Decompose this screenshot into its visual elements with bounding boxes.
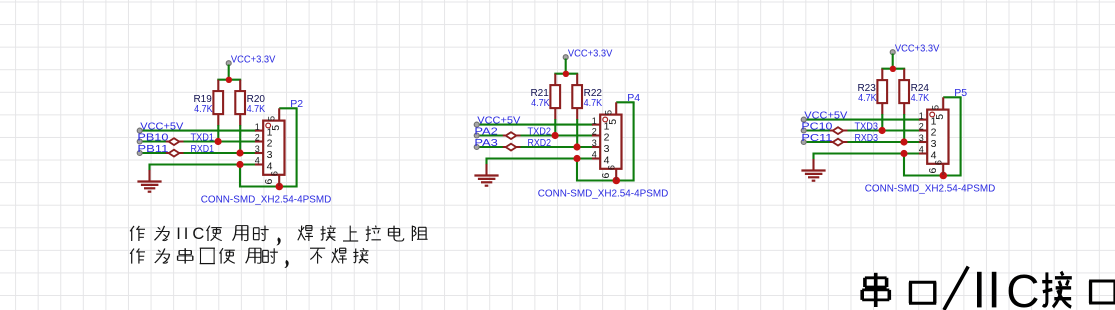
svg-text:I: I bbox=[184, 225, 189, 243]
wire VCC+3.3V vertical bbox=[228, 65, 230, 80]
connector P4 CONN-SMD_XH2.54-4PSMD bbox=[592, 103, 622, 181]
marker diamond on RXD1 wire bbox=[166, 150, 184, 157]
marker diamond on RXD2 wire bbox=[503, 144, 521, 151]
resistor R19 4.7K pull-up bbox=[193, 80, 223, 126]
resistor R24 4.7K pull-up bbox=[899, 68, 929, 114]
port VCC+5V bbox=[801, 109, 847, 122]
wire R23 to net TXD3 bbox=[881, 114, 883, 131]
circuit 1: UART1/IIC2 connector P2 bbox=[128, 44, 343, 209]
wire shield top bbox=[616, 102, 634, 104]
port PC10 bbox=[801, 120, 832, 133]
connector P2 CONN-SMD_XH2.54-4PSMD bbox=[255, 108, 285, 186]
svg-text:C: C bbox=[192, 225, 204, 243]
wire TXD2 to pin 2 bbox=[476, 135, 592, 137]
wire R20 to net RXD1 bbox=[239, 125, 241, 153]
wire VCC+5V to pin 1 bbox=[804, 118, 920, 120]
circuit 3: UART3/IIC connector P5 bbox=[792, 33, 1007, 198]
wire resistor top rail bbox=[881, 67, 905, 69]
svg-text:I: I bbox=[176, 225, 181, 243]
wire GND to pin 4 bbox=[814, 152, 921, 154]
svg-text:C: C bbox=[1006, 265, 1039, 310]
port PA2 bbox=[474, 126, 498, 139]
wire shield right side bbox=[296, 108, 298, 187]
junction RXD3 / R24 bbox=[900, 138, 907, 145]
wire resistor top rail bbox=[217, 79, 241, 81]
power VCC+3.3V port P5 circuit bbox=[890, 42, 939, 54]
wire R24 to net RXD3 bbox=[903, 114, 905, 142]
ground symbol bbox=[137, 164, 161, 192]
junction TXD2 / R21 bbox=[551, 132, 558, 139]
junction RXD1 / R20 bbox=[236, 149, 243, 156]
junction pin6 / shield bbox=[612, 177, 620, 185]
wire shield right side bbox=[632, 103, 634, 182]
wire pin4 net down to shield bbox=[903, 153, 905, 176]
port PA3 bbox=[474, 137, 498, 150]
marker diamond on TXD1 wire bbox=[166, 138, 184, 145]
wire GND to pin 4 bbox=[150, 163, 257, 165]
wire VCC+3.3V vertical bbox=[564, 59, 566, 74]
port VCC+5V bbox=[474, 115, 520, 128]
wire VCC+5V to pin 1 bbox=[140, 130, 256, 132]
wire R19 to net TXD1 bbox=[217, 125, 219, 142]
wire shield bottom bbox=[903, 174, 961, 176]
wire pin4 net down to shield bbox=[576, 159, 578, 182]
wire RXD3 to pin 3 bbox=[804, 140, 920, 142]
junction TXD1 / R19 bbox=[215, 138, 222, 145]
port VCC+5V bbox=[137, 120, 183, 133]
junction pin6 / shield bbox=[940, 171, 948, 179]
wire GND to pin 4 bbox=[486, 158, 593, 160]
wire RXD2 to pin 3 bbox=[476, 146, 592, 148]
wire pin4 net down to shield bbox=[239, 165, 241, 188]
junction VCC rail bbox=[890, 65, 896, 71]
power VCC+3.3V port P2 circuit bbox=[226, 54, 275, 66]
text note: 作为串口使用时，不焊接 bbox=[130, 249, 145, 264]
wire shield bottom bbox=[576, 180, 634, 182]
junction TXD3 / R23 bbox=[879, 126, 886, 133]
junction pin4 / shield bbox=[236, 161, 243, 168]
resistor R21 4.7K pull-up bbox=[530, 74, 560, 120]
wire shield right side bbox=[960, 97, 962, 176]
ground symbol bbox=[474, 158, 498, 186]
wire VCC+5V to pin 1 bbox=[476, 124, 592, 126]
marker diamond on TXD3 wire bbox=[830, 127, 848, 134]
junction pin6 / shield bbox=[276, 183, 284, 191]
resistor R22 4.7K pull-up bbox=[572, 74, 602, 120]
circuit 2: UART2/IIC connector P4 bbox=[465, 38, 680, 203]
connector P5 CONN-SMD_XH2.54-4PSMD bbox=[919, 97, 949, 175]
ground symbol bbox=[801, 152, 825, 180]
wire R21 to net TXD2 bbox=[554, 119, 556, 136]
port PB10 bbox=[137, 131, 168, 144]
wire shield top bbox=[279, 107, 297, 109]
junction VCC rail bbox=[226, 77, 232, 83]
wire TXD3 to pin 2 bbox=[804, 129, 920, 131]
wire resistor top rail bbox=[554, 73, 578, 75]
marker diamond on RXD3 wire bbox=[830, 138, 848, 145]
resistor R23 4.7K pull-up bbox=[857, 68, 887, 114]
wire RXD1 to pin 3 bbox=[140, 152, 256, 154]
wire shield bottom bbox=[239, 185, 297, 187]
junction pin4 / shield bbox=[573, 155, 580, 162]
marker diamond on TXD2 wire bbox=[503, 132, 521, 139]
junction pin4 / shield bbox=[900, 149, 907, 156]
wire shield top bbox=[943, 96, 961, 98]
junction VCC rail bbox=[562, 71, 568, 77]
wire R22 to net RXD2 bbox=[576, 119, 578, 147]
title: 串口/IIC接口 bbox=[862, 273, 889, 307]
power VCC+3.3V port P4 circuit bbox=[563, 48, 612, 60]
port PB11 bbox=[137, 143, 168, 156]
junction RXD2 / R22 bbox=[573, 144, 580, 151]
wire TXD1 to pin 2 bbox=[140, 140, 256, 142]
port PC11 bbox=[801, 131, 832, 144]
wire VCC+3.3V vertical bbox=[892, 53, 894, 68]
resistor R20 4.7K pull-up bbox=[235, 80, 265, 126]
